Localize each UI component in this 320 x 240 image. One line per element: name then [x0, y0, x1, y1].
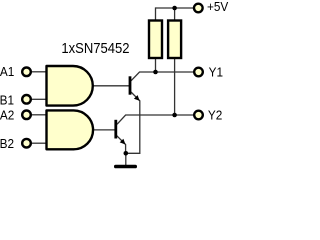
- svg-text:A1: A1: [0, 64, 14, 79]
- svg-text:Y1: Y1: [209, 65, 223, 80]
- svg-text:1xSN75452: 1xSN75452: [61, 41, 129, 57]
- svg-text:A2: A2: [0, 108, 14, 123]
- svg-text:+5V: +5V: [207, 0, 229, 14]
- svg-text:B1: B1: [0, 93, 14, 108]
- svg-text:Y2: Y2: [208, 108, 222, 123]
- svg-text:B2: B2: [0, 136, 14, 151]
